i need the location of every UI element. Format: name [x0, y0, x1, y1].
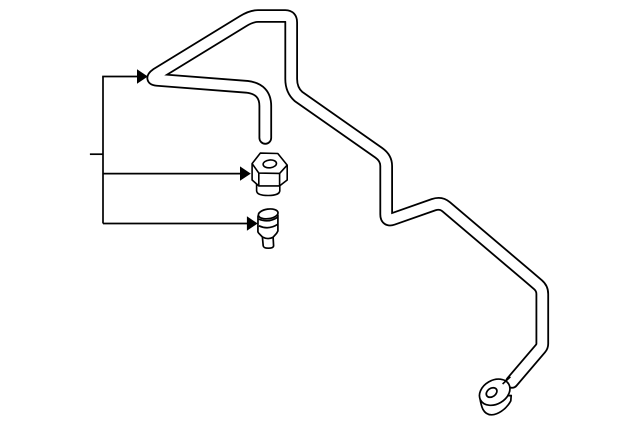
banjo eyelet hole	[484, 386, 498, 400]
banjo eyelet body	[475, 374, 515, 415]
nut hole	[263, 159, 277, 168]
callout bracket vertical line	[102, 77, 104, 224]
callout tick	[90, 153, 103, 155]
nut hex body	[252, 153, 287, 186]
banjo eyelet face	[475, 374, 515, 411]
nut collar	[257, 183, 280, 196]
arrow to nut	[103, 173, 241, 175]
fitting band arcs	[259, 217, 279, 221]
small fitting	[258, 208, 279, 248]
tube inner white	[153, 16, 542, 382]
fitting top cap	[258, 208, 279, 220]
ferrule line at banjo	[503, 377, 511, 384]
tube outline (black)	[153, 16, 542, 382]
fitting stem shoulder	[262, 237, 273, 239]
arrow to fitting	[103, 223, 248, 225]
hex nut	[252, 153, 287, 195]
nut top face edges	[252, 164, 287, 174]
arrow to tube	[102, 76, 138, 78]
